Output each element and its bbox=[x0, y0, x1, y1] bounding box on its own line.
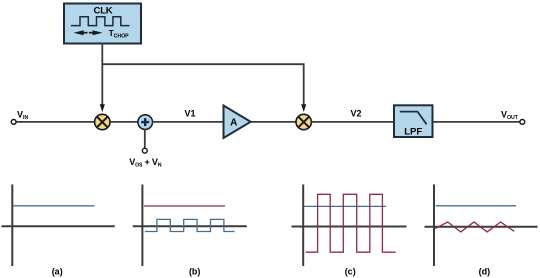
input terminal VIN bbox=[11, 120, 16, 125]
plot (c) signal level trace blue bbox=[304, 205, 387, 207]
wire C1 to summer bbox=[110, 121, 138, 123]
plot (d) ripple trace red bbox=[435, 222, 514, 232]
svg-text:V2: V2 bbox=[350, 108, 361, 118]
svg-text:(d): (d) bbox=[479, 267, 491, 277]
wire CLK to chopper C2 bbox=[102, 64, 306, 112]
noise terminal bbox=[142, 148, 147, 153]
plot (d) axes bbox=[425, 185, 538, 267]
svg-text:VIN: VIN bbox=[17, 109, 28, 121]
wire amplifier to C2 bbox=[251, 121, 297, 123]
chopper mixer C1 bbox=[95, 114, 110, 129]
wire VIN to C1 bbox=[16, 121, 94, 123]
plot (b) chopped input trace blue bbox=[145, 219, 235, 231]
plot (a) axes bbox=[2, 185, 115, 267]
svg-text:VOUT: VOUT bbox=[501, 109, 519, 121]
svg-text:A: A bbox=[230, 117, 237, 128]
svg-text:VOS + VN: VOS + VN bbox=[129, 157, 161, 169]
chopper mixer C2 bbox=[296, 114, 311, 129]
clock block CLK bbox=[64, 4, 141, 44]
wire C2 to LPF V2 bbox=[311, 121, 394, 123]
plot (d) output level trace blue bbox=[436, 205, 516, 207]
plot (b) offset trace red bbox=[144, 205, 225, 207]
LPF block bbox=[394, 105, 433, 137]
LPF response curve bbox=[400, 112, 427, 125]
plot (c) axes bbox=[292, 185, 407, 267]
svg-text:CLK: CLK bbox=[94, 6, 113, 17]
plot (c) amplified chopped trace red bbox=[306, 194, 396, 252]
svg-text:LPF: LPF bbox=[404, 126, 422, 137]
clock waveform bbox=[71, 17, 130, 26]
plot (b) axes bbox=[133, 185, 247, 267]
wire LPF to output bbox=[433, 121, 520, 123]
svg-text:V1: V1 bbox=[184, 108, 195, 118]
Tchop period arrow bbox=[74, 30, 103, 35]
svg-text:(c): (c) bbox=[345, 267, 356, 277]
amplifier A bbox=[224, 106, 251, 139]
wire summer to amplifier V1 bbox=[152, 121, 224, 123]
summing node bbox=[138, 115, 153, 130]
wire CLK to chopper C1 bbox=[100, 44, 105, 113]
wire summer to noise terminal bbox=[144, 129, 146, 148]
plot (a) DC input trace bbox=[13, 205, 94, 207]
output terminal VOUT bbox=[520, 120, 525, 125]
svg-text:(b): (b) bbox=[189, 267, 201, 277]
svg-text:(a): (a) bbox=[52, 267, 63, 277]
